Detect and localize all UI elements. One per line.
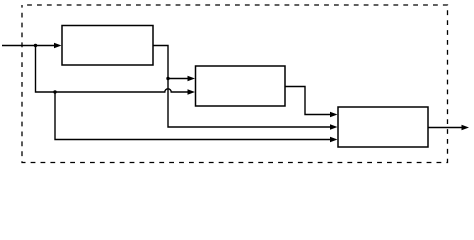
node J3 (junction on B1 output drop): [166, 77, 169, 80]
system boundary (dashed rectangle): [22, 5, 448, 163]
arrowhead into B3 (middle input): [330, 124, 338, 130]
wire: J3 right to B2 first input: [168, 78, 189, 80]
block B3: [338, 107, 428, 147]
arrowhead into B3 (bottom input): [330, 137, 338, 143]
arrowhead into B3 (top input): [330, 112, 338, 118]
node J2 (junction on y=92 wire): [53, 90, 56, 93]
block B1: [62, 26, 153, 66]
block B2: [196, 66, 286, 106]
wire: system input: [2, 45, 55, 47]
node J1 (junction on input wire): [34, 44, 37, 47]
arrowhead into B1: [54, 43, 62, 49]
wire: B2 output right, down and right to B3 top input: [285, 87, 331, 115]
arrowhead into B2 (lower input): [188, 89, 196, 95]
arrowhead system output: [462, 125, 470, 131]
arrowhead into B2 (upper input): [188, 76, 196, 82]
wire: B1 output right, down and right to B3 middle input: [153, 46, 331, 128]
wire: J1 down then right to B2 second input (hops over vertical wire at x=168): [36, 46, 189, 93]
wire: J2 down then right to B3 bottom input: [55, 92, 331, 140]
wire: system output from B3: [428, 127, 462, 129]
